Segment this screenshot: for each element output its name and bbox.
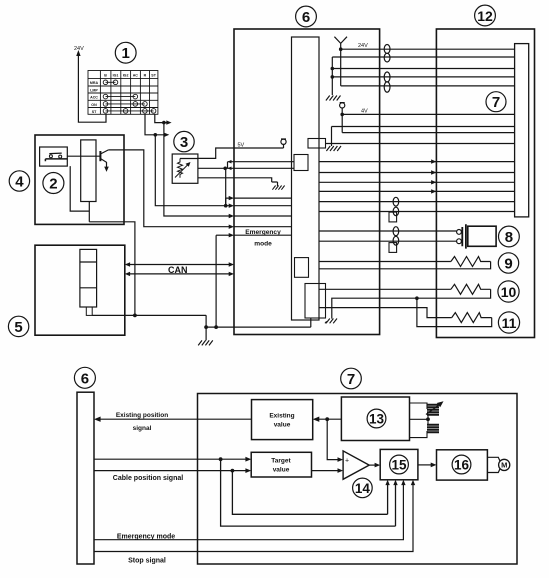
- wire box13 to existing value: [313, 417, 342, 422]
- wire box5 connector to ground net: [86, 307, 92, 315]
- svg-text:IG1: IG1: [113, 74, 119, 78]
- wire line1 inside box6: [234, 197, 292, 199]
- connector tab left B: [295, 258, 309, 278]
- sensor pins lower: [410, 419, 440, 437]
- circled label 10: [498, 281, 519, 302]
- svg-text:2: 2: [49, 176, 57, 193]
- wire w16 to actuator8: [319, 230, 456, 232]
- relay coil block in box 4: [81, 140, 96, 202]
- circled label 6 (bottom): [74, 367, 95, 388]
- junction resistor11 return tap: [415, 296, 419, 300]
- svg-text:24V: 24V: [74, 46, 84, 52]
- junction at ground stub: [204, 325, 208, 329]
- box 13 position sensor: [341, 397, 409, 441]
- svg-text:+: +: [345, 458, 349, 465]
- box target value: [251, 452, 311, 477]
- wire w6 4V rail: [342, 113, 514, 115]
- box 12 actuator assembly: [436, 29, 534, 338]
- circled label 15: [390, 455, 409, 474]
- resistor R10: [451, 284, 491, 294]
- wire w17 to actuator8: [319, 240, 456, 242]
- wire cable position signal 1: [94, 457, 251, 462]
- circled label 8: [499, 226, 520, 247]
- junction ground net: [133, 314, 137, 318]
- box 16 motor drive: [437, 450, 488, 480]
- connector bar in box 6: [292, 37, 320, 320]
- arrow line1 into box 6: [229, 196, 234, 200]
- junction feedback tap 1: [219, 457, 223, 461]
- wire emergency mode lower inside: [234, 234, 292, 236]
- circled label 7 (bottom): [341, 368, 362, 389]
- junction line2: [224, 204, 228, 208]
- svg-text:AC: AC: [133, 74, 139, 78]
- svg-text:14: 14: [355, 481, 371, 496]
- box 7 actuator control: [198, 394, 518, 565]
- svg-text:IG2: IG2: [123, 74, 129, 78]
- svg-text:Emergency: Emergency: [245, 229, 281, 236]
- actuator connector bar right: [515, 44, 529, 217]
- CAN bus line 2: [125, 272, 234, 276]
- svg-text:MRA: MRA: [90, 81, 99, 85]
- circled label 3: [174, 131, 194, 151]
- table row ST contacts: [106, 110, 154, 112]
- wire sensor 5V supply: [180, 148, 284, 159]
- svg-text:9: 9: [504, 256, 512, 273]
- svg-text:12: 12: [477, 8, 493, 24]
- CAN bus line 1: [125, 262, 234, 266]
- wire resistor11 return: [417, 298, 492, 326]
- wire transistor collector to ECU line4: [108, 150, 231, 227]
- svg-text:1: 1: [122, 45, 130, 62]
- wire w12: [319, 181, 515, 183]
- svg-text:5V: 5V: [238, 143, 245, 149]
- ground G4: [326, 146, 341, 151]
- circled label 5: [8, 316, 28, 336]
- actuator 8 terminals: [457, 230, 462, 244]
- wire resistor10 return to ground: [332, 289, 491, 318]
- wire from table output ST down: [155, 114, 172, 125]
- wire w10: [319, 161, 515, 163]
- wire w14: [319, 201, 515, 203]
- wire from table output R down: [145, 114, 169, 137]
- junction feedback tap 2: [231, 469, 235, 473]
- wire ground net drop: [205, 315, 207, 340]
- ECU connector bar (bottom): [77, 392, 94, 564]
- circled label 16: [452, 455, 471, 474]
- transistor Q1: [100, 150, 108, 172]
- svg-text:mode: mode: [254, 241, 272, 248]
- connector hook mid2: [389, 243, 397, 253]
- wire w19 resistor10 feed: [319, 288, 451, 290]
- sensor pin mid wire: [410, 414, 430, 421]
- box 3 sensor: [172, 154, 198, 183]
- svg-text:value: value: [273, 467, 290, 474]
- wire relay common ground run: [89, 222, 135, 316]
- circled label 4: [9, 171, 29, 191]
- ground G3 top: [326, 96, 341, 101]
- wire w3: [332, 68, 514, 70]
- box 2 switch enclosure: [40, 147, 68, 166]
- wire w13: [319, 190, 515, 192]
- arrow line3 into box 6: [229, 214, 234, 218]
- op-amp 14 comparator: [343, 451, 369, 479]
- svg-text:Existing position: Existing position: [116, 412, 168, 419]
- wire w7 ground drop: [331, 127, 333, 147]
- svg-text:4: 4: [15, 174, 24, 191]
- wire op-amp to box15: [369, 463, 380, 468]
- svg-text:16: 16: [454, 458, 470, 473]
- wire ground net to box 6: [206, 235, 234, 327]
- wire line2 inside box6: [234, 205, 292, 207]
- box 4 control unit: [35, 135, 124, 224]
- inline connector ellipse mid2: [393, 227, 399, 245]
- svg-text:3: 3: [180, 134, 188, 151]
- wire existing value to op-amp: [327, 419, 340, 459]
- wire w11: [319, 172, 515, 174]
- svg-text:Target: Target: [271, 458, 291, 465]
- inline connector ellipse mid1: [393, 197, 399, 215]
- wire wA: [342, 132, 514, 134]
- wire ground net inside box6: [234, 318, 311, 327]
- circled label 13: [367, 409, 386, 428]
- svg-text:4V: 4V: [361, 109, 368, 115]
- wire sensor return to ground: [198, 178, 278, 186]
- resistor R11: [452, 313, 492, 323]
- wire w1 24V to actuator bar: [341, 48, 515, 50]
- svg-text:M: M: [501, 461, 507, 470]
- svg-text:value: value: [274, 422, 291, 429]
- svg-text:24V: 24V: [358, 43, 368, 49]
- wire sensor signal upper fork: [228, 160, 295, 170]
- circled label 9: [498, 253, 518, 273]
- actuator 8 body: [468, 226, 496, 246]
- circled label 14: [353, 478, 373, 498]
- wire w20 resistor11 feed: [319, 308, 452, 318]
- wire box15 to box16: [418, 463, 437, 468]
- svg-text:signal: signal: [133, 425, 152, 432]
- svg-text:R: R: [144, 74, 147, 78]
- wire emergency mode lower into box 6: [216, 234, 231, 236]
- ignition switch table S1: [88, 71, 158, 115]
- svg-text:ON: ON: [91, 103, 97, 107]
- connector hook mid1: [389, 212, 397, 222]
- svg-text:ST: ST: [92, 110, 97, 114]
- BOTTOM-DIAGRAM: [74, 367, 517, 564]
- ground G5: [325, 319, 337, 324]
- antenna power input symbol: [334, 37, 347, 86]
- box 15 driver: [380, 449, 418, 479]
- svg-text:ACC: ACC: [90, 96, 98, 100]
- wire resistor9 return: [319, 262, 491, 269]
- circled label 12: [475, 5, 496, 26]
- wire branch to ECU line3: [164, 123, 231, 216]
- svg-text:6: 6: [302, 9, 310, 26]
- wire switch to transistor base: [67, 155, 99, 157]
- ground G1 below box5 net: [198, 340, 213, 345]
- thermistor R in box3: [175, 159, 191, 178]
- vertical tie w2-w4 to ground: [331, 57, 333, 95]
- circled label 7: [486, 92, 506, 112]
- svg-text:7: 7: [492, 94, 500, 111]
- wire emergency mode: [94, 480, 406, 540]
- connector tab left A: [294, 155, 308, 171]
- node 24V supply label: [74, 46, 84, 52]
- junction sensor signal branch: [223, 167, 227, 171]
- wire sensor signal to connector: [198, 167, 294, 169]
- svg-text:8: 8: [505, 229, 513, 246]
- ground G2 sensor return: [272, 186, 284, 190]
- motor M: [487, 457, 509, 472]
- connector tab right top: [308, 139, 326, 149]
- connector block in box 5: [80, 249, 97, 307]
- svg-text:Cable position signal: Cable position signal: [113, 475, 183, 482]
- svg-text:6: 6: [81, 370, 89, 387]
- wire branch to ECU line2: [155, 135, 231, 206]
- svg-text:13: 13: [369, 412, 385, 427]
- wire line3 inside box6: [234, 215, 292, 217]
- wire w7: [332, 126, 515, 128]
- table row ON contacts: [106, 103, 145, 105]
- sensor pins upper: [410, 401, 444, 414]
- wire line1 stub: [226, 198, 231, 206]
- wire existing position signal: [94, 417, 252, 422]
- connector circle 5V test point: [281, 139, 286, 148]
- wire cable position signal 2: [94, 468, 251, 473]
- wire w18 resistor9 feed: [319, 261, 451, 263]
- inline connector ellipses top pair: [384, 45, 390, 93]
- junction 4V: [340, 113, 344, 117]
- box 5 CAN unit: [35, 245, 125, 335]
- wire sensor branch down to line2: [225, 168, 227, 205]
- table row ACC contacts: [106, 96, 136, 98]
- svg-text:Existing: Existing: [269, 413, 294, 420]
- svg-text:5: 5: [14, 319, 22, 336]
- wire w15: [319, 211, 515, 213]
- svg-text:7: 7: [347, 371, 355, 388]
- wire line4 inside box6: [234, 226, 292, 228]
- junction emergency branch: [214, 325, 218, 329]
- arrow line2 into box 6: [229, 204, 234, 208]
- box existing value: [252, 400, 313, 440]
- wire w2: [332, 56, 514, 58]
- feedback pin 2 wire: [221, 459, 398, 526]
- svg-text:15: 15: [391, 458, 407, 473]
- arrows into box 12: [431, 159, 436, 193]
- wire target value to op-amp: [312, 470, 341, 472]
- wire stop signal: [94, 480, 415, 552]
- svg-text:LMP: LMP: [90, 88, 98, 92]
- wire switch return to relay common: [70, 166, 89, 222]
- table row MRA contacts: [106, 81, 116, 83]
- connector circle 4V test point: [340, 103, 345, 133]
- circled label 1: [115, 42, 136, 63]
- TOP-DIAGRAM: [8, 5, 534, 345]
- wire w4: [332, 76, 514, 78]
- connector tab right bottom: [305, 284, 326, 319]
- resistor R9: [451, 257, 491, 267]
- box 6 ECU: [234, 29, 380, 335]
- wire w5 from stem: [341, 85, 515, 87]
- circled label 6: [296, 6, 317, 27]
- Emergency mode label: [245, 229, 281, 248]
- svg-text:CAN: CAN: [168, 265, 188, 275]
- circled label 11: [498, 312, 519, 333]
- svg-text:B: B: [104, 74, 107, 78]
- Existing position signal label: [116, 412, 168, 432]
- svg-text:Stop signal: Stop signal: [128, 558, 166, 565]
- wire 24V feed to ignition switch table: [76, 50, 106, 122]
- svg-text:11: 11: [502, 315, 517, 331]
- switch S2: [45, 153, 67, 161]
- svg-text:10: 10: [501, 284, 517, 300]
- arrow line4 into box 6: [229, 225, 234, 229]
- svg-text:ST: ST: [151, 74, 156, 78]
- feedback pin 1 wire: [232, 471, 389, 515]
- circled label 2: [43, 173, 64, 194]
- wire w9 from tab: [326, 143, 515, 145]
- junction 24V wire1: [339, 47, 343, 51]
- junction existing value feedback: [325, 417, 329, 421]
- actuator 8 flange bars: [462, 224, 466, 248]
